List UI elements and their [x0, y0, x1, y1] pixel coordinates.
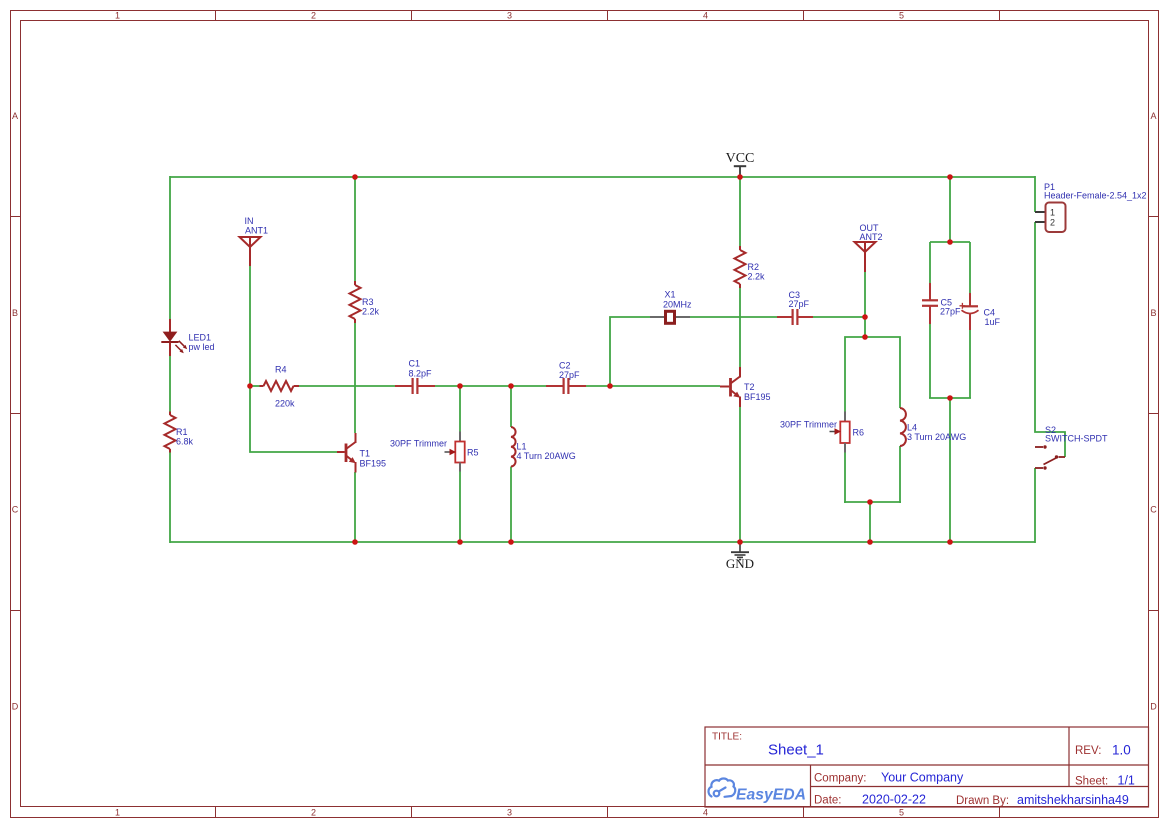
- node bus GND: [737, 539, 743, 545]
- svg-text:BF195: BF195: [744, 392, 771, 402]
- svg-text:GND: GND: [726, 556, 754, 571]
- wire X1 to C3: [690, 316, 777, 318]
- wire C5C4 loop top: [930, 241, 970, 243]
- node X1 branch: [607, 383, 613, 389]
- svg-text:27pF: 27pF: [559, 370, 580, 380]
- wire left vertical LED-R1: [169, 356, 171, 412]
- node ANT2 upper: [862, 314, 868, 320]
- node ANT2 lower: [862, 334, 868, 340]
- trimmer R5: [445, 432, 465, 472]
- svg-text:1/1: 1/1: [1118, 774, 1135, 788]
- switch S2: [1035, 445, 1065, 469]
- frame row letters right: [1150, 111, 1157, 712]
- svg-text:27pF: 27pF: [940, 306, 961, 316]
- svg-text:2: 2: [1050, 218, 1055, 228]
- wire ANT1 down: [249, 266, 251, 386]
- wire T1 emitter down: [354, 472, 356, 542]
- wire R2 to T2 collector: [739, 288, 741, 367]
- node bus L1: [508, 539, 514, 545]
- wire tank loop top: [845, 337, 900, 412]
- svg-text:2020-02-22: 2020-02-22: [862, 793, 926, 807]
- title block divider title row: [705, 764, 1149, 766]
- frame column ticks bottom: [216, 807, 1000, 818]
- frame column ticks top: [216, 11, 1000, 21]
- wire R5 bottom: [459, 472, 461, 543]
- svg-text:Sheet:: Sheet:: [1075, 776, 1108, 788]
- EasyEDA logo cloud: [709, 778, 736, 796]
- svg-text:C2: C2: [559, 361, 571, 371]
- svg-text:Date:: Date:: [814, 795, 842, 807]
- svg-text:Drawn By:: Drawn By:: [956, 795, 1009, 807]
- wire C2 to T2 base: [586, 385, 720, 387]
- title block divider rev cell: [1068, 727, 1070, 787]
- svg-text:D: D: [1150, 702, 1157, 712]
- wire left vertical upper: [169, 176, 171, 319]
- svg-text:27pF: 27pF: [789, 299, 810, 309]
- ground GND: [731, 544, 749, 560]
- svg-text:LED1: LED1: [189, 333, 212, 343]
- capacitor C2: [546, 378, 586, 394]
- svg-text:1: 1: [115, 808, 120, 818]
- svg-text:D: D: [12, 702, 19, 712]
- title block outline: [705, 727, 1149, 807]
- node tank bottom: [867, 499, 873, 505]
- wire C3 to ANT2 node: [813, 316, 865, 318]
- svg-text:1.0: 1.0: [1112, 743, 1131, 758]
- resistor R4: [260, 381, 300, 391]
- svg-text:REV:: REV:: [1075, 745, 1101, 757]
- wire top VCC bus: [170, 176, 1035, 178]
- capacitor C1: [395, 378, 435, 394]
- svg-text:SWITCH-SPDT: SWITCH-SPDT: [1045, 434, 1108, 444]
- svg-text:L1: L1: [517, 442, 527, 452]
- wire C5 upper leg: [929, 242, 931, 283]
- svg-text:3: 3: [507, 808, 512, 818]
- svg-text:6.8k: 6.8k: [176, 437, 194, 447]
- wire bottom GND bus: [170, 541, 1035, 543]
- wire left vertical lower: [169, 453, 171, 544]
- svg-text:3 Turn 20AWG: 3 Turn 20AWG: [907, 432, 966, 442]
- svg-text:IN: IN: [245, 216, 254, 226]
- svg-text:pw led: pw led: [189, 342, 215, 352]
- svg-text:2.2k: 2.2k: [362, 307, 380, 317]
- svg-text:VCC: VCC: [726, 151, 755, 166]
- svg-text:C1: C1: [409, 359, 421, 369]
- svg-text:R1: R1: [176, 427, 188, 437]
- resistor R3: [350, 281, 361, 323]
- svg-text:amitshekharsinha49: amitshekharsinha49: [1017, 793, 1129, 807]
- node bus tank: [867, 539, 873, 545]
- svg-text:1: 1: [115, 11, 120, 21]
- frame column numbers top: [115, 11, 904, 21]
- wire R2 top: [739, 177, 741, 246]
- wire T2 emitter down: [739, 407, 741, 543]
- inductor L1: [511, 427, 516, 466]
- svg-text:X1: X1: [665, 290, 676, 300]
- svg-text:R2: R2: [748, 262, 760, 272]
- svg-text:L4: L4: [907, 423, 917, 433]
- wire C4 upper leg: [969, 242, 971, 293]
- wire R5 top: [459, 386, 461, 432]
- svg-text:TITLE:: TITLE:: [712, 732, 742, 743]
- capacitor C4 polarized: [960, 293, 979, 330]
- svg-text:4: 4: [703, 11, 708, 21]
- wire C5C4 loop bottom: [929, 397, 971, 399]
- svg-text:3: 3: [507, 11, 512, 21]
- wire C4 lower leg: [969, 330, 971, 398]
- node bus R5: [457, 539, 463, 545]
- title block divider date row: [811, 786, 1149, 788]
- wire C1 to C2: [435, 385, 546, 387]
- svg-text:R6: R6: [853, 428, 865, 438]
- svg-text:R4: R4: [275, 365, 287, 375]
- wire bus corner to P1 pin1: [1034, 176, 1036, 212]
- node C5C4 bottom: [947, 395, 953, 401]
- wire R6 bottom leg: [844, 453, 846, 504]
- svg-text:Header-Female-2.54_1x2: Header-Female-2.54_1x2: [1044, 191, 1147, 201]
- transistor T1: [337, 433, 356, 473]
- capacitor C5: [922, 283, 938, 324]
- svg-text:T2: T2: [744, 382, 755, 392]
- frame row ticks right: [1149, 217, 1159, 611]
- svg-text:R3: R3: [362, 297, 374, 307]
- node R4 left: [247, 383, 253, 389]
- svg-text:B: B: [1150, 308, 1156, 318]
- svg-text:30PF Trimmer: 30PF Trimmer: [780, 420, 837, 430]
- svg-text:T1: T1: [360, 449, 371, 459]
- node bus T1: [352, 539, 358, 545]
- svg-text:220k: 220k: [275, 399, 295, 409]
- wire tank drop to bus: [869, 502, 871, 542]
- wire C5 lower leg: [929, 324, 931, 398]
- node R3 top: [352, 174, 358, 180]
- resistor R2: [735, 246, 746, 288]
- resistor R1: [165, 412, 176, 453]
- wire tank loop bottom: [844, 501, 901, 503]
- svg-text:C: C: [12, 505, 19, 515]
- frame row letters left: [12, 111, 19, 712]
- svg-text:4: 4: [703, 808, 708, 818]
- power flag VCC: [734, 166, 746, 176]
- wire X1 branch up: [610, 317, 650, 386]
- svg-text:Your Company: Your Company: [881, 771, 964, 785]
- svg-text:20MHz: 20MHz: [663, 300, 692, 310]
- wire C5C4 drop to bus: [949, 398, 951, 542]
- node L1 top: [508, 383, 514, 389]
- antenna ANT2: [855, 242, 876, 272]
- svg-text:4 Turn 20AWG: 4 Turn 20AWG: [517, 451, 576, 461]
- wire S2 to bus: [1034, 468, 1036, 543]
- wire R3 top: [354, 177, 356, 281]
- wire R4 to C1: [299, 385, 395, 387]
- svg-text:Company:: Company:: [814, 773, 866, 785]
- title block divider logo cell: [810, 765, 812, 807]
- svg-text:2.2k: 2.2k: [748, 272, 766, 282]
- svg-text:1: 1: [1050, 208, 1055, 218]
- svg-text:C: C: [1150, 505, 1157, 515]
- node VCC: [737, 174, 743, 180]
- wire node to T1 base: [250, 386, 337, 452]
- trimmer R6: [830, 412, 850, 453]
- svg-text:30PF Trimmer: 30PF Trimmer: [390, 439, 447, 449]
- node bus C5C4: [947, 539, 953, 545]
- frame row ticks left: [11, 217, 21, 611]
- wire L1 top: [510, 386, 512, 427]
- svg-text:8.2pF: 8.2pF: [409, 369, 433, 379]
- svg-text:BF195: BF195: [360, 459, 387, 469]
- wire P1 pin2 to S2: [1035, 222, 1065, 457]
- capacitor C3: [777, 309, 813, 325]
- svg-text:ANT2: ANT2: [860, 232, 883, 242]
- svg-text:ANT1: ANT1: [245, 226, 268, 236]
- svg-text:2: 2: [311, 808, 316, 818]
- wire L1 bottom: [510, 467, 512, 543]
- svg-text:A: A: [1150, 111, 1156, 121]
- svg-text:Sheet_1: Sheet_1: [768, 742, 824, 759]
- svg-text:EasyEDA: EasyEDA: [736, 787, 806, 804]
- frame column numbers bottom: [115, 808, 904, 818]
- node C5 riser top: [947, 174, 953, 180]
- crystal X1: [650, 311, 690, 323]
- svg-text:5: 5: [899, 808, 904, 818]
- wire L4 bottom leg: [899, 446, 901, 503]
- wire R3 to T1 collector: [354, 323, 356, 433]
- svg-text:R5: R5: [467, 448, 479, 458]
- svg-text:B: B: [12, 308, 18, 318]
- header P1: [1035, 203, 1066, 233]
- svg-text:C4: C4: [984, 308, 996, 318]
- wire R4 left stub: [250, 385, 260, 387]
- wire C5C4 riser: [949, 177, 951, 242]
- antenna ANT1: [240, 237, 261, 266]
- LED LED1: [161, 319, 187, 356]
- svg-text:1uF: 1uF: [985, 317, 1001, 327]
- inductor L4: [900, 408, 906, 446]
- transistor T2: [720, 367, 740, 407]
- svg-text:2: 2: [311, 11, 316, 21]
- svg-text:5: 5: [899, 11, 904, 21]
- node C5C4 top: [947, 239, 953, 245]
- node R5 top: [457, 383, 463, 389]
- wire ANT2 down: [864, 272, 866, 338]
- svg-text:A: A: [12, 111, 18, 121]
